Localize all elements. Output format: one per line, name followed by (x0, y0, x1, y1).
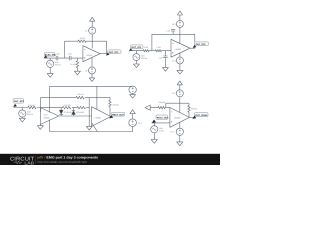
op-amp U5 LM358 (170, 108, 190, 128)
svg-text:12 V: 12 V (172, 23, 177, 26)
svg-text:100 kΩ: 100 kΩ (77, 93, 84, 96)
voltage source V10 (176, 128, 183, 135)
node OUT_STAGE1 label box (108, 50, 121, 54)
node OUT_FINAL label box (195, 113, 209, 117)
svg-text:http://circuitlab.com/c/cnka4b: http://circuitlab.com/c/cnka4bk67qn5 (38, 160, 88, 164)
wire plus input line (152, 122, 170, 124)
svg-text:D1 4148: D1 4148 (64, 111, 72, 114)
sine source VS4 (153, 123, 155, 126)
wire feedback top run (65, 40, 107, 42)
ground mid (86, 126, 92, 130)
ground under V10 (177, 135, 183, 145)
svg-text:LM358: LM358 (43, 116, 50, 119)
op-amp U2 LM358 (171, 39, 190, 57)
svg-text:12 V: 12 V (172, 92, 177, 95)
svg-text:1 kΩ: 1 kΩ (156, 46, 161, 49)
resistor R4 1k (143, 50, 149, 52)
voltage source V8 (129, 119, 137, 127)
voltage source V9 (176, 90, 183, 97)
capacitor C2 1uF (69, 56, 71, 60)
svg-text:1 kHz: 1 kHz (159, 130, 164, 133)
svg-text:100 kΩ: 100 kΩ (64, 104, 71, 107)
wire bottom power rail (50, 120, 133, 132)
wire output (111, 116, 113, 118)
ground under R2 (74, 71, 80, 75)
node arrow V+ supply flag (177, 81, 182, 90)
node arrow V- supply flag (130, 110, 135, 119)
resistor R8 100k (63, 106, 71, 109)
svg-text:12 V: 12 V (172, 59, 177, 62)
wire feedback top run (166, 103, 189, 107)
wire V5 to op-amp top power pin (179, 27, 181, 44)
wire op-amp1 output run (59, 115, 92, 117)
op-amp U4 LM358 (92, 107, 111, 127)
svg-text:100 Hz: 100 Hz (55, 64, 61, 67)
CircuitLab logo zigzag (14, 161, 22, 164)
capacitor C1 1uF (56, 56, 58, 60)
svg-text:OUT_FINAL: OUT_FINAL (195, 114, 208, 117)
wire op-amp bottom power pin (91, 57, 93, 67)
svg-text:LM358: LM358 (175, 48, 182, 51)
wire feedback loop (152, 34, 195, 50)
svg-text:10m: 10m (159, 127, 163, 130)
node arrow V+ supply flag (177, 11, 182, 20)
svg-text:1 kΩ: 1 kΩ (144, 46, 149, 49)
diode D1 (60, 108, 62, 116)
voltage source V2 (89, 67, 96, 74)
wire V9 to op-amp top power pin (179, 97, 181, 113)
wire middle run (41, 107, 90, 109)
resistor R11 100k input (158, 106, 165, 109)
svg-text:100 kΩ: 100 kΩ (191, 108, 198, 111)
wire op-amp bottom power pin (179, 53, 181, 57)
wire feedback right leg to output (106, 41, 108, 54)
svg-text:OUT_ST1: OUT_ST1 (131, 46, 142, 49)
wire top power rail (50, 86, 133, 112)
op-amp U3 LM358 (41, 108, 59, 125)
wire output (189, 116, 193, 118)
node arrow input left (145, 105, 150, 110)
ground under VS1 (47, 67, 53, 77)
svg-text:LM358: LM358 (95, 117, 102, 120)
svg-text:10m: 10m (55, 61, 59, 64)
ground under op-amp plus input (37, 124, 43, 129)
resistor R2 10k to ground (76, 58, 79, 71)
node input label box lower (156, 115, 168, 120)
capacitor C4 1uF on feedback (171, 29, 175, 34)
wire input line (14, 107, 41, 109)
resistor R7 100k feedback (76, 96, 84, 99)
sine source VS2 (135, 51, 137, 54)
node ELEC_MIC label box (44, 52, 54, 56)
svg-text:10 kΩ: 10 kΩ (79, 37, 85, 40)
svg-text:12 V: 12 V (138, 122, 143, 125)
svg-text:100 Hz: 100 Hz (141, 57, 147, 60)
node input label box (13, 99, 24, 104)
resistor R6 100k input (28, 106, 36, 109)
resistor R10 100k feedback vertical (109, 98, 112, 117)
ground under V7 (130, 94, 136, 99)
ground under C3 (162, 68, 168, 72)
node arrow V+ (supply flag) (90, 17, 95, 27)
diode D2 (73, 108, 75, 116)
svg-text:12 V: 12 V (85, 29, 90, 32)
svg-text:100 kΩ: 100 kΩ (158, 101, 165, 104)
wire vertical to ground mid (88, 98, 90, 127)
resistor R9 100k (77, 106, 85, 109)
node STAGE1 input label box (131, 45, 143, 49)
wire output (100, 53, 108, 55)
ground under VS2 (133, 61, 139, 68)
ground under VS4 (151, 133, 157, 143)
svg-text:OUT_ST2: OUT_ST2 (14, 100, 25, 103)
ground under V2 (89, 74, 95, 82)
svg-text:LM358: LM358 (174, 117, 181, 120)
wire input line (44, 57, 83, 59)
sine source VS3 (21, 108, 23, 110)
voltage source V1 (89, 27, 96, 34)
ground under V6 (177, 64, 183, 74)
voltage source V7 (129, 86, 136, 93)
svg-text:LAB: LAB (24, 161, 34, 166)
caption separator (35, 155, 37, 163)
voltage source V6 (176, 57, 183, 64)
svg-text:12 V: 12 V (170, 131, 175, 134)
resistor R1 10k feedback (78, 40, 86, 43)
svg-text:100 kΩ: 100 kΩ (28, 104, 35, 107)
wire feedback left leg (64, 41, 66, 58)
capacitor C3 1uF to ground (163, 51, 167, 68)
op-amp U1 LM358 (83, 46, 100, 62)
wire feedback top run (41, 97, 111, 99)
wire V1 to op-amp top power pin (91, 34, 93, 48)
wire op-amp bottom power pin (179, 123, 181, 129)
caption bar (0, 154, 220, 165)
voltage source V5 (176, 20, 183, 27)
svg-text:LM358: LM358 (86, 54, 93, 57)
wire op-amp2 top power pin (96, 86, 98, 109)
resistor R5 1k (155, 50, 161, 52)
ground under VS3 (19, 117, 25, 122)
node OUT_STAGE2 label box (195, 42, 209, 46)
svg-text:RECT_OUT: RECT_OUT (157, 117, 169, 120)
svg-text:OUT_ST1: OUT_ST1 (109, 51, 120, 54)
wire input line (129, 50, 171, 52)
wire output (190, 47, 195, 49)
svg-text:D2 4148: D2 4148 (76, 111, 84, 114)
svg-text:RECT_OUT: RECT_OUT (112, 113, 124, 116)
node RECT_OUT label box (111, 112, 125, 116)
wire op-amp2 bottom power diagonal (92, 123, 97, 131)
resistor R12 100k feedback vertical (188, 103, 191, 117)
wire input line (150, 107, 170, 109)
svg-text:100 Hz: 100 Hz (27, 113, 33, 116)
sine source VS1 (49, 58, 51, 60)
svg-text:12 V: 12 V (85, 69, 90, 72)
svg-text:OUT_ST2: OUT_ST2 (196, 43, 207, 46)
svg-text:10 kΩ: 10 kΩ (70, 63, 76, 66)
wire inverting input leg (40, 98, 42, 112)
svg-text:100 kΩ: 100 kΩ (112, 103, 119, 106)
